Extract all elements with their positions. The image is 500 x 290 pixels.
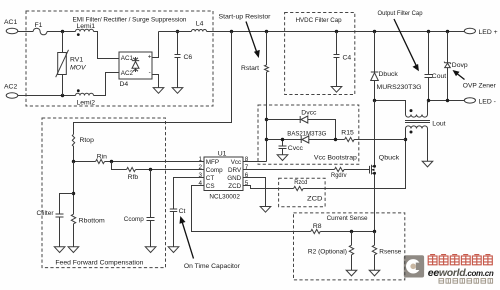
capacitor Ct on-time <box>170 178 204 247</box>
resistor Rtop <box>72 134 94 161</box>
svg-text:Rbottom: Rbottom <box>79 218 105 225</box>
inductor Lout lower winding <box>406 120 446 161</box>
wire Vcc pin8 line <box>243 161 267 163</box>
svg-text:AC1: AC1 <box>4 19 17 26</box>
svg-text:Ct: Ct <box>179 208 186 215</box>
wire HVDC sense line to Rtop <box>74 32 232 135</box>
svg-text:Vcc: Vcc <box>231 159 242 166</box>
ground Lout aux winding <box>422 161 433 167</box>
dashed box: ZCD <box>279 178 326 206</box>
svg-text:Cfilter: Cfilter <box>37 210 55 217</box>
svg-text:Dovp: Dovp <box>452 62 468 69</box>
svg-text:F1: F1 <box>35 22 43 29</box>
ground Ct <box>168 247 179 253</box>
svg-text:C6: C6 <box>184 54 193 61</box>
ground Cfilter <box>54 247 65 253</box>
svg-text:Lout: Lout <box>432 120 445 127</box>
wire MFP pin1 line with Rin <box>74 161 205 163</box>
wire GND pin6 to ground <box>243 178 266 207</box>
zener diode Dovp <box>444 32 468 101</box>
ground Rbottom <box>68 247 79 253</box>
svg-text:C4: C4 <box>343 55 352 62</box>
wire bridge minus output to ground <box>152 75 159 88</box>
diode BAS21M3T3G <box>267 131 345 144</box>
wire CS pin4 line <box>192 186 375 232</box>
svg-text:L4: L4 <box>196 21 204 28</box>
svg-text:MURS230T3G: MURS230T3G <box>377 84 422 91</box>
dashed box: HVDC Filter Cap <box>285 13 355 95</box>
svg-text:Dvcc: Dvcc <box>301 110 317 117</box>
svg-text:RV1: RV1 <box>70 57 83 64</box>
svg-text:Current Sense: Current Sense <box>327 215 368 222</box>
op-amp U1 NCL30002 <box>204 150 243 200</box>
ground Rsense <box>369 270 380 276</box>
bridge rectifier D4 <box>119 52 152 88</box>
annotation Start-up Resistor <box>219 14 272 58</box>
svg-text:Rin: Rin <box>97 154 107 161</box>
inductor Lout upper winding <box>406 101 428 118</box>
svg-text:Rsense: Rsense <box>379 249 401 256</box>
wire LED minus rail <box>429 100 465 102</box>
inductor Lemi1 <box>76 23 96 36</box>
svg-text:On Time Capacitor: On Time Capacitor <box>184 263 241 270</box>
wire switch node to Lout <box>375 101 406 115</box>
diode Dvcc <box>267 110 336 140</box>
dashed box: EMI Filter/Rectifier/Surge Suppression <box>26 11 213 106</box>
dashed box: Vcc Bootstrap <box>258 105 359 164</box>
svg-text:LED +: LED + <box>479 29 498 36</box>
svg-text:Rtop: Rtop <box>80 137 95 144</box>
fuse F1 <box>33 22 47 35</box>
capacitor Cout <box>425 32 447 101</box>
terminal LED plus <box>464 28 497 36</box>
svg-text:CS: CS <box>206 183 215 190</box>
node rail junctions <box>230 30 233 33</box>
wire Comp pin2 line with Rfb <box>112 162 205 170</box>
annotation Output Filter Cap <box>378 10 423 71</box>
svg-text:eeworld.com.cn: eeworld.com.cn <box>428 267 494 279</box>
ground bridge minus <box>153 88 164 94</box>
watermark chinese title <box>428 255 492 265</box>
terminal AC1 <box>4 19 18 34</box>
svg-text:U1: U1 <box>218 150 227 157</box>
svg-text:BAS21M3T3G: BAS21M3T3G <box>287 131 326 138</box>
svg-text:Comp: Comp <box>206 167 223 174</box>
annotation On Time Capacitor <box>180 216 241 270</box>
svg-text:Feed Forward Compensation: Feed Forward Compensation <box>55 260 143 267</box>
varistor RV1 MOV <box>56 32 87 96</box>
resistor Rstart <box>241 32 269 162</box>
node RV1 top junction <box>61 30 64 33</box>
ground R2 <box>346 270 357 276</box>
svg-text:OVP Zener: OVP Zener <box>463 83 497 90</box>
resistor Rsense <box>372 232 401 271</box>
transistor Qbuck MOSFET <box>370 101 400 175</box>
resistor Rin <box>96 154 108 164</box>
inductor Lemi2 <box>76 89 96 106</box>
svg-text:GND: GND <box>227 175 241 182</box>
svg-text:NCL30002: NCL30002 <box>209 193 240 200</box>
capacitor Cvcc <box>279 138 304 155</box>
wire DRV pin7 line with Rgdrv <box>243 169 370 171</box>
node RV1 bottom junction <box>61 94 64 97</box>
svg-text:Dbuck: Dbuck <box>379 71 399 78</box>
ground C6 <box>172 88 183 94</box>
wire ZCD pin5 line <box>243 140 406 189</box>
svg-text:Qbuck: Qbuck <box>379 155 400 162</box>
wire AC2 to Lemi2 <box>18 95 76 97</box>
wire Lemi1 to bridge AC1 pin <box>94 32 120 59</box>
svg-text:LED -: LED - <box>479 98 496 105</box>
resistor Rfb <box>127 167 139 181</box>
resistor R15 <box>341 130 405 142</box>
terminal AC2 <box>4 84 18 99</box>
ground Cvcc <box>277 155 288 161</box>
svg-text:Lemi1: Lemi1 <box>77 23 96 30</box>
inductor L4 <box>191 21 206 32</box>
watermark eeworld logo <box>404 255 424 277</box>
svg-text:MFP: MFP <box>206 159 219 166</box>
capacitor C6 <box>175 30 193 88</box>
watermark tagline <box>439 279 493 284</box>
dashed box: Feed Forward Compensation <box>42 118 166 268</box>
svg-text:Cout: Cout <box>432 73 446 80</box>
svg-text:AC1: AC1 <box>121 55 134 62</box>
resistor Rbottom <box>71 162 105 247</box>
wire Qbuck source to current sense <box>374 175 376 232</box>
terminal LED minus <box>464 98 496 106</box>
svg-text:R2 (Optional): R2 (Optional) <box>308 249 347 256</box>
wire Lemi2 to bridge AC2 pin <box>94 73 120 96</box>
svg-text:AC2: AC2 <box>4 84 17 91</box>
wire F1 to Lemi1 <box>47 31 76 33</box>
svg-text:MOV: MOV <box>70 64 87 71</box>
resistor Rzcd <box>294 179 308 190</box>
svg-text:ZCD: ZCD <box>307 196 323 203</box>
capacitor C4 <box>334 32 352 87</box>
annotation OVP Zener <box>453 70 497 90</box>
svg-text:Rstart: Rstart <box>241 65 259 72</box>
capacitor Ccomp <box>124 170 155 247</box>
svg-text:Cvcc: Cvcc <box>288 145 304 152</box>
svg-text:Lemi2: Lemi2 <box>77 100 96 107</box>
svg-text:Output Filter Cap: Output Filter Cap <box>378 10 423 17</box>
svg-text:+: + <box>148 54 152 61</box>
capacitor Cfilter <box>37 194 74 247</box>
svg-text:Rfb: Rfb <box>128 174 139 181</box>
svg-text:Vcc Bootstrap: Vcc Bootstrap <box>314 155 357 162</box>
ground Ccomp <box>145 247 156 253</box>
svg-text:Start-up Resistor: Start-up Resistor <box>219 14 272 21</box>
svg-text:Rgdrv: Rgdrv <box>331 172 347 179</box>
svg-text:D4: D4 <box>120 81 129 88</box>
diode Dbuck MURS230T3G <box>371 32 422 101</box>
svg-text:CT: CT <box>206 175 215 182</box>
dashed box: Current Sense <box>294 213 405 280</box>
svg-text:ZCD: ZCD <box>228 183 241 190</box>
resistor Rgdrv <box>331 167 347 179</box>
svg-text:HVDC Filter Cap: HVDC Filter Cap <box>296 17 342 24</box>
node Cvcc junction <box>334 138 337 141</box>
svg-text:Rzcd: Rzcd <box>294 179 307 186</box>
svg-text:R8: R8 <box>313 223 322 230</box>
ground C4 <box>331 87 342 93</box>
svg-text:R15: R15 <box>341 130 354 137</box>
wire bridge plus output to top rail <box>152 32 159 58</box>
resistor R2 optional <box>308 232 354 271</box>
svg-text:AC2: AC2 <box>121 70 134 77</box>
wire top HVDC rail <box>159 31 465 33</box>
ground GND pin <box>260 207 271 213</box>
svg-text:Ccomp: Ccomp <box>124 216 144 223</box>
svg-text:-: - <box>149 69 151 76</box>
node aux winding junction <box>404 138 407 141</box>
svg-text:DRV: DRV <box>228 167 242 174</box>
resistor R8 <box>311 223 322 233</box>
core Lout <box>405 121 430 123</box>
wire AC1 to F1 <box>18 31 33 33</box>
